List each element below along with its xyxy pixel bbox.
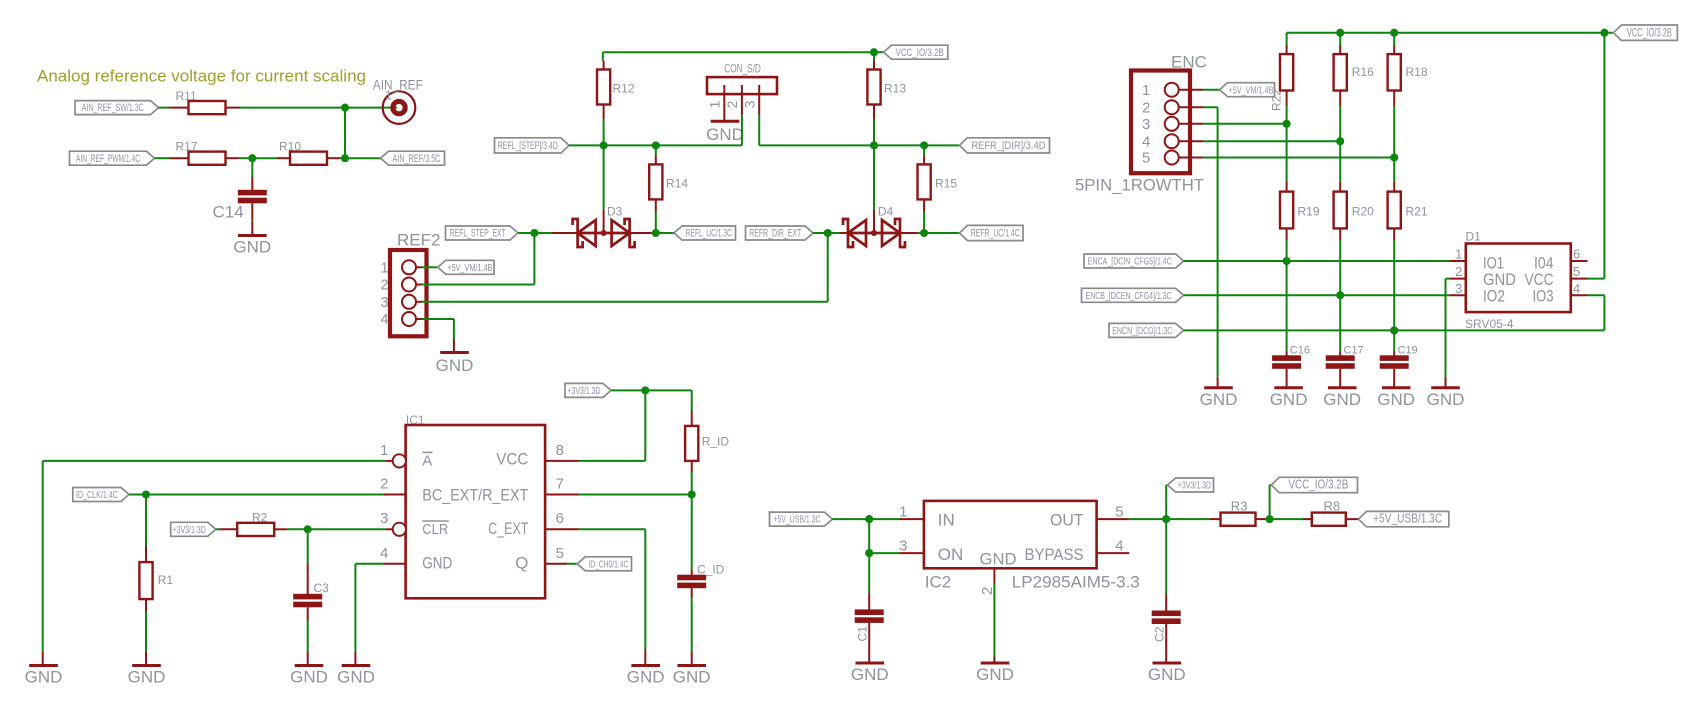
svg-text:5: 5	[556, 545, 564, 562]
pin wire R8 right	[1346, 518, 1366, 520]
pin wire R10 left	[277, 157, 290, 159]
pin wire IC1-2	[384, 494, 406, 496]
pin wire IC2-3	[900, 552, 924, 554]
svg-text:R12: R12	[613, 81, 635, 95]
svg-text:VCC_IO/3.2B: VCC_IO/3.2B	[896, 47, 944, 59]
resistor R11	[176, 89, 226, 114]
ground below R1	[128, 666, 166, 687]
junction rail x R18	[1390, 29, 1398, 37]
pin wire IC1-3	[386, 528, 393, 530]
svg-text:R14: R14	[666, 177, 688, 191]
junction REFR_UC node	[920, 229, 928, 237]
junction ENCA node	[1283, 257, 1291, 265]
svg-text:REFR_DIR_EXT: REFR_DIR_EXT	[749, 228, 801, 240]
svg-text:3: 3	[899, 538, 907, 555]
wire ID_CLK row	[129, 494, 384, 496]
svg-text:VCC_IO/3.2B: VCC_IO/3.2B	[1288, 478, 1348, 492]
pin wire R19 bottom	[1286, 228, 1288, 240]
svg-text:3: 3	[1142, 116, 1150, 133]
wire +3V3 drop	[1166, 485, 1167, 519]
pin REF2-1	[402, 260, 416, 274]
pin wire D1-5	[1571, 278, 1588, 280]
pin wire R14 top	[655, 156, 657, 164]
pin wire R22 bottom	[1286, 91, 1288, 107]
wire R1 column	[145, 495, 147, 547]
pin wire gnd2	[145, 651, 147, 665]
wire IC1-5 to flag	[568, 563, 577, 565]
svg-text:GND: GND	[1323, 390, 1361, 409]
junction +3V3 node	[641, 386, 649, 394]
pin wire R_ID top	[691, 411, 693, 426]
svg-text:GND: GND	[422, 553, 452, 572]
svg-text:GND: GND	[290, 668, 328, 687]
pin wire R16 bottom	[1339, 91, 1341, 107]
wire R20 to ENCB node	[1339, 240, 1341, 295]
pin wire C1 bottom	[868, 623, 870, 663]
svg-text:2: 2	[1455, 264, 1462, 279]
net flag REFR_DIR_EXT	[746, 226, 814, 240]
resistor R19	[1280, 192, 1320, 229]
net flag ENCB_[DCEN_CFG4]/1.3C	[1082, 288, 1184, 302]
resistor R22	[1280, 54, 1293, 90]
wire REFL_STEP_EXT to D3	[518, 232, 552, 234]
junction ENC3 node	[1283, 120, 1291, 128]
pin wire D1 gnd	[1445, 377, 1447, 388]
wire R2 to C3 node	[287, 528, 308, 530]
net flag ID_CH0/1.4C	[577, 557, 631, 571]
svg-text:6: 6	[556, 510, 564, 527]
pin IC1-1 inversion circle	[393, 454, 406, 467]
wire AIN_REF_PWM to R17	[155, 157, 170, 159]
pin wire R16 top	[1339, 45, 1341, 54]
svg-text:Analog reference voltage for c: Analog reference voltage for current sca…	[37, 68, 366, 86]
pin wire IC1-5	[545, 563, 568, 565]
svg-text:1: 1	[385, 89, 392, 103]
svg-text:R_ID: R_ID	[702, 435, 730, 449]
pin wire IC2-4 BYPASS	[1097, 552, 1130, 554]
junction REFL x R14	[652, 141, 660, 149]
wire +3V3 node to R_ID	[645, 390, 691, 411]
svg-text:R20: R20	[1352, 205, 1374, 219]
resistor R2	[237, 511, 274, 537]
pin wire R2 left	[220, 528, 237, 530]
pin wire R21 bottom	[1393, 228, 1395, 240]
pin wire C3 bottom	[307, 607, 309, 620]
wire rail to R16	[1339, 33, 1341, 45]
wire ENC3 node to R19	[1286, 124, 1288, 182]
pin wire R17 left	[169, 157, 189, 159]
svg-text:R19: R19	[1298, 205, 1320, 219]
svg-text:+3V3/1.3D: +3V3/1.3D	[1178, 480, 1211, 492]
pin wire R3 right	[1256, 518, 1266, 520]
capacitor C14	[213, 190, 267, 222]
svg-text:ENCB_[DCEN_CFG4]/1.3C: ENCB_[DCEN_CFG4]/1.3C	[1086, 290, 1172, 302]
resistor R13	[867, 70, 906, 105]
wire ENCA node to C16	[1286, 261, 1288, 351]
wire REF2-2 to REFL_STEP	[422, 233, 534, 285]
pin wire D1-6	[1571, 260, 1588, 262]
svg-text:R1: R1	[158, 573, 174, 587]
wire REF2-4 to ground	[422, 319, 454, 339]
net flag +5V_VM/1.4B at REF2	[438, 260, 494, 274]
svg-text:GND: GND	[627, 668, 665, 687]
ground below C3	[290, 666, 328, 687]
ground IC1 pin4 net	[337, 666, 375, 687]
pin wire ENC-4	[1179, 140, 1203, 142]
pin wire D4 right	[900, 232, 917, 234]
wire ENC-3 to R22 column	[1203, 123, 1287, 125]
diode D4	[843, 205, 905, 248]
svg-text:1: 1	[1455, 247, 1462, 262]
pin wire IC2 gnd	[993, 657, 995, 664]
pin wire R21 top	[1393, 182, 1395, 192]
wire R_ID to pin7 node	[691, 472, 693, 495]
svg-text:GND: GND	[980, 550, 1017, 569]
pin wire C14 bottom	[251, 203, 253, 219]
pin wire C2 bottom	[1165, 624, 1167, 663]
ground below C2	[1148, 663, 1186, 684]
svg-text:3: 3	[1455, 281, 1462, 296]
junction REFL x R12	[600, 141, 608, 149]
junction C1 node top	[865, 515, 873, 523]
svg-text:8: 8	[556, 442, 564, 459]
wire ENCB row	[1184, 294, 1450, 296]
pin wire C19 top	[1393, 351, 1395, 356]
svg-text:R21: R21	[1406, 205, 1428, 219]
pin wire R11 left	[169, 107, 189, 109]
svg-text:REFL_UC/1.3C: REFL_UC/1.3C	[686, 228, 732, 240]
wire R12 to REFL node	[603, 119, 605, 145]
wire CON pin2 to REFL	[741, 115, 743, 146]
pin wire R15 top	[923, 156, 925, 164]
pin wire C2 top	[1165, 595, 1167, 611]
capacitor C19	[1380, 345, 1418, 369]
wire R18 to ENC5 node	[1393, 106, 1395, 158]
pin wire C17 top	[1339, 351, 1341, 356]
svg-text:C3: C3	[314, 581, 330, 595]
junction ENCB node	[1336, 291, 1344, 299]
svg-text:IC1: IC1	[406, 413, 425, 427]
wire rail to flag	[874, 51, 884, 53]
resistor R18	[1388, 54, 1428, 90]
pin wire ENC2 gnd	[1217, 377, 1219, 388]
resistor R1	[139, 562, 173, 599]
pin wire R1 bottom	[145, 599, 147, 611]
wire IC2-2 to gnd	[993, 584, 995, 657]
wire R11 to AIN_REF node	[240, 107, 345, 109]
svg-text:REFR_[DIR]/3.4D: REFR_[DIR]/3.4D	[971, 140, 1045, 152]
wire R10 to AIN_REF node	[340, 157, 345, 159]
pin wire R20 top	[1339, 182, 1341, 192]
pin ENC-1	[1165, 83, 1179, 97]
net flag +3V3/1.3D at IC1	[565, 383, 611, 397]
svg-text:GND: GND	[1200, 390, 1238, 409]
svg-text:ENCA_[DCIN_CFG5]/1.4C: ENCA_[DCIN_CFG5]/1.4C	[1088, 256, 1172, 268]
pin wire IC2-2	[993, 568, 995, 583]
wire R3 to R8	[1265, 518, 1303, 520]
net flag +3V3/1.3D at IC2 out	[1168, 478, 1214, 492]
junction ENCN node	[1390, 326, 1398, 334]
svg-text:GND: GND	[1270, 390, 1308, 409]
wire R12col to D3	[603, 145, 605, 210]
pin wire D1-2	[1449, 278, 1466, 280]
pin wire R13 bottom	[873, 105, 875, 120]
wire C2 column	[1165, 519, 1167, 594]
svg-text:ID_CLK/1.4C: ID_CLK/1.4C	[76, 489, 118, 501]
pin wire IC1-8	[545, 460, 578, 462]
net flag +5V_USB/1.3C left	[770, 512, 833, 526]
wire C14 node to R10	[252, 157, 277, 159]
pin wire D3 left	[552, 232, 578, 234]
wire R19 to ENCA node	[1286, 240, 1288, 261]
wire ENCN row	[1184, 295, 1605, 330]
wire to AIN_REF/3.5C flag	[345, 157, 381, 159]
wire IC1-6 to gnd	[579, 529, 646, 649]
svg-text:GND: GND	[851, 665, 889, 684]
svg-text:C16: C16	[1290, 345, 1310, 357]
ground below C1	[851, 663, 889, 684]
pin wire C19 bottom	[1393, 369, 1395, 388]
pin wire CON pin2	[741, 85, 743, 115]
pin wire R8 left	[1303, 518, 1312, 520]
pin wire ENC-2	[1179, 106, 1203, 108]
wire C14 node down	[251, 158, 253, 177]
pin REF2-3	[402, 295, 416, 309]
svg-text:CON_S/D: CON_S/D	[724, 62, 761, 76]
wire ENC5 node to R21	[1393, 158, 1395, 183]
svg-text:1: 1	[707, 100, 723, 108]
svg-text:REFR_UC/1.4C: REFR_UC/1.4C	[971, 228, 1020, 240]
pin wire R12 bottom	[603, 105, 605, 120]
svg-text:4: 4	[1142, 133, 1150, 150]
pin wire REF2 gnd	[453, 339, 455, 353]
capacitor C16	[1272, 345, 1310, 369]
resistor R8	[1312, 499, 1346, 526]
net flag +3V3/1.3D at R2	[171, 522, 216, 536]
pin wire R3 left	[1210, 518, 1221, 520]
svg-text:GND: GND	[1427, 390, 1465, 409]
junction rail x D1 VCC	[1600, 29, 1608, 37]
wire D3 to REFL_UC	[651, 232, 674, 234]
wire C14 to ground	[251, 219, 253, 222]
pin wire CON pin3	[758, 85, 760, 115]
svg-text:C1: C1	[855, 626, 869, 642]
wire IC1-8 to +3V3 node	[579, 390, 646, 461]
svg-text:2: 2	[381, 278, 389, 294]
wire ON row	[869, 552, 900, 554]
resistor R15	[918, 164, 958, 199]
pin wire R2 right	[274, 528, 287, 530]
pin wire C16 bottom	[1286, 369, 1288, 388]
pin wire D1-3	[1449, 294, 1466, 296]
wire R15 to diode row	[923, 212, 925, 233]
pin wire gnd pin6	[644, 650, 646, 666]
pin wire gnd1	[42, 651, 44, 665]
svg-text:5: 5	[1142, 150, 1150, 167]
pin wire R18 bottom	[1393, 91, 1395, 107]
wire D4 to REFR_UC	[917, 232, 960, 234]
ground below C14	[233, 236, 271, 257]
ground below CON_S/D	[706, 121, 744, 144]
svg-text:GND: GND	[673, 668, 711, 687]
wire R14 to diode row	[655, 212, 657, 233]
svg-text:Q: Q	[515, 553, 528, 572]
svg-text:5: 5	[1115, 504, 1123, 521]
wire ENC-5 to R18 column	[1203, 157, 1394, 159]
connector AIN_REF pad	[373, 78, 423, 124]
svg-text:GND: GND	[337, 668, 375, 687]
junction node AIN_REF bottom	[341, 154, 349, 162]
wire REFL node to R14	[655, 145, 657, 156]
svg-text:D3: D3	[607, 205, 623, 219]
pin wire C3 top	[307, 563, 309, 594]
wire rail corner to R22	[1286, 33, 1288, 45]
svg-text:IO2: IO2	[1483, 287, 1505, 306]
svg-text:D4: D4	[878, 205, 894, 219]
pin wire REF2-3	[416, 301, 422, 303]
svg-text:C_EXT: C_EXT	[488, 519, 528, 538]
junction C1 node mid	[865, 549, 873, 557]
wire +3V3 to R2	[216, 528, 220, 530]
svg-text:3: 3	[741, 100, 757, 108]
pin wire D4 left	[840, 232, 849, 234]
pin IC1-3 inversion circle	[393, 523, 406, 536]
wire node to C_ID	[691, 495, 693, 571]
svg-text:4: 4	[380, 545, 388, 562]
pin wire R13 top	[873, 61, 875, 70]
capacitor C_ID	[677, 562, 724, 588]
junction R_ID C_ID node	[688, 490, 696, 498]
svg-text:1: 1	[380, 442, 388, 459]
pin wire C17 bottom	[1339, 369, 1341, 388]
resistor R14	[649, 164, 688, 199]
svg-text:1: 1	[381, 260, 389, 276]
svg-text:+5V_USB/1.3C: +5V_USB/1.3C	[773, 514, 820, 526]
ground ENC pin2	[1200, 388, 1238, 409]
svg-text:+5V_USB/1.3C: +5V_USB/1.3C	[1373, 512, 1442, 526]
svg-text:SRV05-4: SRV05-4	[1465, 317, 1514, 331]
wire C3 column	[307, 529, 309, 563]
pin REF2-4	[402, 312, 416, 326]
wire rail corner to R12	[602, 52, 605, 60]
pin wire REF2-1	[416, 266, 422, 268]
pin wire C14 top	[251, 177, 253, 190]
pin wire R11 right	[226, 107, 241, 109]
wire IC1-7 to node	[579, 494, 692, 496]
pin wire D3 vertical	[603, 210, 605, 233]
svg-text:2: 2	[1142, 99, 1150, 116]
pin wire gnd C_ID	[691, 651, 693, 665]
capacitor C1	[855, 609, 884, 641]
svg-text:OUT: OUT	[1050, 511, 1084, 530]
wire R17 to C14 node	[239, 157, 252, 159]
svg-text:7: 7	[556, 476, 564, 493]
pin wire gnd4	[354, 651, 356, 665]
svg-text:5PIN_1ROWTHT: 5PIN_1ROWTHT	[1075, 175, 1204, 194]
svg-text:BC_EXT/R_EXT: BC_EXT/R_EXT	[422, 485, 528, 504]
ground below REF2	[436, 353, 474, 376]
svg-text:R10: R10	[279, 140, 301, 154]
svg-text:C17: C17	[1344, 345, 1364, 357]
svg-text:6: 6	[1573, 247, 1580, 262]
wire rail to R13	[873, 52, 875, 60]
junction C2 node	[1162, 515, 1170, 523]
junction VCC_IO node	[1266, 515, 1274, 523]
net flag VCC_IO/3.2B top right	[1613, 25, 1677, 40]
svg-text:GND: GND	[706, 125, 744, 144]
svg-text:A: A	[422, 452, 432, 469]
pin wire R22 top	[1286, 45, 1288, 54]
pin wire ENC-3	[1179, 123, 1203, 125]
junction VCC_IO rail	[870, 48, 878, 56]
svg-text:C19: C19	[1398, 345, 1418, 357]
pin wire IC1-4	[384, 563, 406, 565]
net flag REFL_[STEP]/3.4D	[495, 138, 570, 153]
pin REF2-2	[402, 278, 416, 292]
svg-text:D1: D1	[1466, 230, 1482, 244]
wire REFR row	[759, 144, 959, 146]
svg-text:ENCN_[DCO]/1.3C: ENCN_[DCO]/1.3C	[1112, 325, 1172, 337]
wire CON pin3 to REFR	[758, 115, 760, 146]
net flag AIN_REF_PWM/1.4C	[70, 151, 155, 165]
svg-text:GND: GND	[128, 668, 166, 687]
svg-text:2: 2	[380, 476, 388, 493]
svg-text:GND: GND	[1377, 390, 1415, 409]
svg-text:GND: GND	[233, 238, 271, 257]
svg-text:CLR: CLR	[422, 521, 448, 538]
junction ENC5 node	[1390, 153, 1398, 161]
capacitor C2	[1152, 611, 1181, 642]
svg-text:R15: R15	[935, 177, 957, 191]
resistor R20	[1334, 192, 1375, 229]
wire C1 column	[868, 553, 870, 593]
pin ENC-4	[1165, 134, 1179, 148]
wire ENC-1 to +5V flag	[1203, 89, 1220, 91]
pin wire IC2-1	[900, 518, 924, 520]
resistor R17	[176, 140, 226, 165]
svg-text:R8: R8	[1324, 499, 1341, 514]
svg-text:1: 1	[1142, 82, 1150, 99]
svg-text:R3: R3	[1231, 499, 1248, 514]
svg-text:+5V_VM/1.4B: +5V_VM/1.4B	[1229, 84, 1274, 96]
junction node C14 top	[248, 154, 256, 162]
pin wire R15 bottom	[923, 199, 925, 212]
pin wire ENC-1	[1179, 89, 1203, 91]
junction REFL_STEP node	[530, 229, 538, 237]
ground below C_ID	[673, 666, 711, 687]
wire AIN_REF_SW to R11	[159, 107, 170, 109]
pin wire gnd3	[307, 651, 309, 665]
wire ENCB node to C17	[1339, 295, 1341, 351]
pin wire IC2-5	[1097, 518, 1130, 520]
ground D1	[1427, 388, 1465, 409]
wire +3V3 flag to node	[611, 389, 645, 391]
pin wire C14 gnd	[251, 222, 253, 236]
ground IC2	[976, 663, 1014, 684]
net flag ID_CLK/1.4C	[73, 488, 129, 502]
wire rail to R18	[1393, 33, 1395, 45]
diode D3	[573, 205, 635, 248]
pin wire D3 right	[630, 232, 652, 234]
pin ENC-2	[1165, 100, 1179, 114]
ground below C17	[1323, 388, 1361, 409]
svg-text:R17: R17	[176, 140, 198, 154]
resistor R3	[1221, 499, 1256, 526]
wire C1 node down	[868, 519, 870, 553]
IC U IC1	[380, 413, 564, 598]
svg-text:GND: GND	[976, 665, 1014, 684]
net flag REFR_UC/1.4C	[960, 225, 1024, 240]
